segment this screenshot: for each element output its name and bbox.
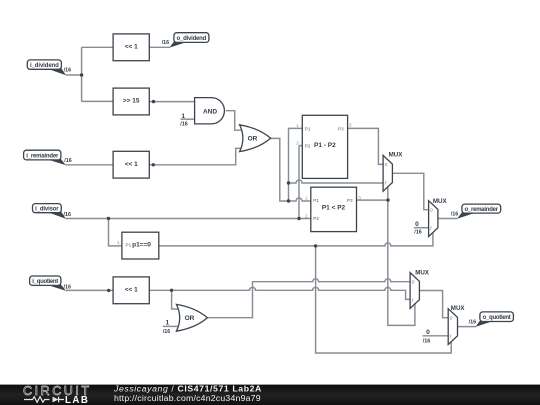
svg-text:P3: P3 [347, 198, 353, 203]
svg-text:Jessicayang / CIS471/571 Lab2A: Jessicayang / CIS471/571 Lab2A [113, 384, 262, 394]
svg-text:2: 2 [296, 140, 299, 145]
svg-text:/16: /16 [64, 67, 71, 73]
svg-text:/16: /16 [423, 339, 431, 345]
svg-text:0: 0 [415, 221, 419, 228]
svg-text:0: 0 [412, 279, 415, 284]
svg-text:http://circuitlab.com/c4n2cu34: http://circuitlab.com/c4n2cu34n9a79 [114, 393, 261, 403]
svg-text:/16: /16 [451, 212, 459, 218]
svg-text:o_dividend: o_dividend [177, 36, 207, 42]
svg-text:P1: P1 [126, 242, 132, 247]
svg-text:P3: P3 [338, 126, 344, 131]
svg-text:0: 0 [430, 208, 433, 213]
svg-text:<< 1: << 1 [125, 286, 138, 293]
svg-text:MUX: MUX [433, 198, 448, 205]
svg-text:<< 1: << 1 [125, 161, 138, 168]
svg-text:/16: /16 [162, 40, 170, 46]
svg-text:/16: /16 [163, 329, 171, 335]
svg-text:0: 0 [450, 316, 453, 321]
svg-text:AND: AND [203, 109, 217, 116]
svg-text:o_remainder: o_remainder [465, 207, 499, 213]
svg-text:P2: P2 [305, 144, 311, 149]
svg-text:OR: OR [185, 315, 195, 322]
svg-text:>> 15: >> 15 [123, 97, 140, 104]
svg-text:1: 1 [181, 113, 185, 120]
svg-text:p1==0: p1==0 [132, 242, 151, 249]
svg-text:P1 < P2: P1 < P2 [322, 205, 346, 212]
svg-text:<< 1: << 1 [125, 43, 138, 50]
svg-text:i_remainder: i_remainder [26, 153, 59, 159]
svg-text:/16: /16 [64, 285, 72, 291]
svg-text:P1: P1 [305, 126, 311, 131]
svg-text:/16: /16 [64, 212, 72, 218]
svg-text:o_quotient: o_quotient [483, 315, 511, 321]
svg-text:MUX: MUX [415, 269, 430, 276]
svg-text:2: 2 [305, 213, 308, 218]
svg-text:3: 3 [349, 123, 352, 128]
svg-text:1: 1 [117, 240, 120, 245]
svg-text:MUX: MUX [451, 305, 466, 312]
svg-text:P1 - P2: P1 - P2 [314, 142, 336, 149]
svg-text:0: 0 [426, 329, 430, 336]
svg-text:MUX: MUX [389, 152, 404, 159]
svg-text:/16: /16 [469, 320, 477, 326]
svg-text:OR: OR [248, 136, 258, 143]
svg-text:/16: /16 [414, 230, 422, 236]
svg-text:i_dividend: i_dividend [30, 63, 59, 69]
svg-text:1: 1 [305, 195, 308, 200]
svg-text:/16: /16 [180, 122, 188, 128]
svg-text:i_quotient: i_quotient [32, 279, 58, 285]
svg-text:P2: P2 [313, 216, 319, 221]
svg-text:LAB: LAB [65, 395, 89, 405]
svg-text:3: 3 [358, 195, 361, 200]
svg-text:/16: /16 [64, 158, 72, 164]
svg-text:0: 0 [385, 162, 388, 167]
svg-text:i_divisor: i_divisor [35, 207, 59, 213]
svg-text:P1: P1 [313, 198, 319, 203]
svg-text:1: 1 [296, 123, 299, 128]
svg-text:1: 1 [166, 320, 170, 327]
